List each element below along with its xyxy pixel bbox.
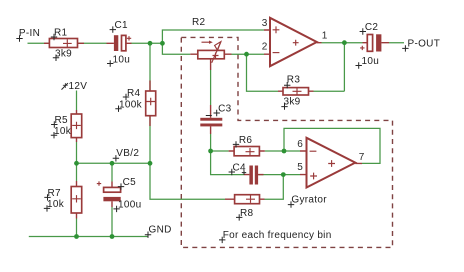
wire R4 column (149, 43, 151, 163)
capacitor C3 (200, 104, 231, 135)
wire R3 branch (247, 43, 345, 91)
svg-text:R3: R3 (287, 75, 301, 86)
svg-text:6: 6 (297, 139, 303, 150)
svg-text:R2: R2 (192, 17, 206, 28)
wire VB/2 to R8 path (150, 163, 225, 199)
svg-text:3: 3 (262, 18, 268, 29)
svg-text:3k9: 3k9 (284, 96, 301, 107)
wire op2 feedback loop (284, 128, 380, 163)
svg-text:C2: C2 (365, 22, 379, 33)
svg-text:100k: 100k (119, 100, 143, 111)
wire node A to C4 (211, 151, 244, 175)
node B junction (R6/pin6/feedback) (282, 149, 287, 154)
label P-IN (16, 28, 40, 42)
dashed box "for each frequency bin" (181, 37, 392, 247)
svg-text:Gyrator: Gyrator (291, 195, 327, 206)
label P-OUT (402, 38, 440, 51)
svg-text:1: 1 (322, 31, 328, 42)
node C junction (C4/pin5/R8) (281, 172, 286, 177)
label VB/2 (113, 148, 140, 161)
VB/2 rail junction dots (74, 161, 79, 166)
wire to pot / op1 pin2 (162, 43, 264, 54)
capacitor C4 (229, 163, 264, 185)
capacitor C1 (107, 20, 132, 66)
wire P-IN row (28, 42, 163, 44)
resistor R6 (229, 135, 265, 156)
wire R7 column (76, 163, 78, 236)
wire C4 to node C to op2 pin5 (258, 174, 300, 176)
svg-text:C3: C3 (218, 104, 232, 115)
svg-text:VB/2: VB/2 (116, 148, 139, 159)
wire pot wiper to C3 (210, 70, 212, 105)
svg-text:10u: 10u (113, 54, 131, 65)
node pin2 junction (244, 52, 249, 57)
op-amp U2 (297, 138, 365, 188)
capacitor C5 (97, 177, 142, 212)
svg-text:P-OUT: P-OUT (408, 38, 441, 49)
label GND (145, 225, 172, 238)
svg-text:C5: C5 (123, 177, 137, 188)
node A junction (C3/R6/C4) (208, 149, 213, 154)
wire GND rail (29, 236, 148, 238)
svg-text:For each frequency bin: For each frequency bin (223, 230, 332, 241)
wire R6 row (211, 150, 300, 152)
GND rail junction dots (74, 234, 79, 239)
node junction dots top row (148, 41, 153, 46)
wire VB/2 rail (77, 162, 151, 164)
wire C3 to node A (210, 134, 212, 151)
svg-text:+12V: +12V (62, 81, 87, 92)
resistor R3 (278, 75, 314, 110)
svg-text:100u: 100u (118, 200, 141, 211)
wire node C to R8 right (265, 175, 284, 200)
trimmer R2 (190, 17, 231, 70)
wire +12V column (76, 91, 78, 164)
svg-text:GND: GND (149, 225, 172, 236)
supply +12V (62, 81, 88, 92)
svg-text:7: 7 (359, 152, 365, 163)
label Gyrator (288, 195, 327, 208)
op-amp U1 (262, 18, 328, 66)
resistor R7 (44, 181, 82, 219)
label For each frequency bin (219, 230, 332, 243)
wire op1 output row (322, 42, 405, 44)
svg-text:R6: R6 (239, 135, 253, 146)
svg-text:5: 5 (297, 162, 303, 173)
node output junction (342, 40, 347, 45)
resistor R4 (115, 81, 155, 127)
resistor R8 (225, 195, 265, 221)
resistor R5 (51, 110, 82, 142)
svg-text:C1: C1 (115, 20, 129, 31)
capacitor C2 (356, 22, 390, 69)
svg-text:P-IN: P-IN (19, 28, 40, 39)
resistor R1 (44, 27, 84, 61)
svg-text:10u: 10u (362, 56, 380, 67)
wire to op1 pin3 (162, 30, 264, 43)
svg-text:2: 2 (262, 42, 268, 53)
wire C5 column (111, 163, 113, 236)
